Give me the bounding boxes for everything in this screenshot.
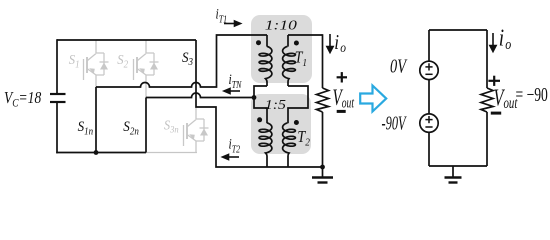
svg-text:S3n: S3n xyxy=(164,118,179,135)
svg-text:iT2: iT2 xyxy=(229,135,241,154)
svg-text:iTN: iTN xyxy=(229,71,243,90)
svg-text:Vout: Vout xyxy=(333,86,355,111)
svg-text:S1n: S1n xyxy=(78,119,94,138)
svg-text:0V: 0V xyxy=(390,54,408,77)
svg-text:S2n: S2n xyxy=(123,119,139,138)
svg-text:io: io xyxy=(334,31,346,55)
svg-text:1:10: 1:10 xyxy=(265,18,297,33)
svg-text:iT1: iT1 xyxy=(216,5,228,24)
svg-text:S3: S3 xyxy=(182,49,193,68)
svg-text:-90V: -90V xyxy=(382,111,407,134)
svg-text:io: io xyxy=(499,25,512,53)
svg-text:1:5: 1:5 xyxy=(265,98,286,113)
svg-text:VC=18: VC=18 xyxy=(4,90,42,110)
svg-text:= −90: = −90 xyxy=(516,83,548,105)
svg-text:S1: S1 xyxy=(69,51,80,70)
svg-text:S2: S2 xyxy=(117,51,128,70)
svg-text:Vout: Vout xyxy=(494,85,519,111)
